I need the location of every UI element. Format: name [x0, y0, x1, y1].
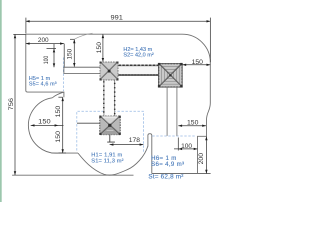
svg-text:100: 100: [181, 143, 193, 150]
svg-text:St= 62,8 m²: St= 62,8 m²: [148, 174, 183, 181]
svg-text:S2= 42,0 m²: S2= 42,0 m²: [123, 52, 153, 58]
svg-text:S5= 4,6 m³: S5= 4,6 m³: [29, 82, 57, 88]
svg-text:150: 150: [96, 42, 103, 54]
svg-text:178: 178: [129, 137, 141, 144]
svg-text:100: 100: [43, 55, 50, 64]
svg-text:756: 756: [8, 97, 15, 110]
svg-text:150: 150: [192, 59, 204, 66]
svg-text:200: 200: [198, 152, 205, 164]
svg-text:150: 150: [55, 130, 62, 142]
svg-text:150: 150: [187, 119, 199, 126]
svg-text:991: 991: [111, 15, 124, 22]
svg-text:150: 150: [55, 105, 62, 117]
svg-text:150: 150: [38, 119, 51, 126]
svg-text:200: 200: [38, 37, 49, 44]
svg-text:S6= 4,9 m³: S6= 4,9 m³: [151, 161, 184, 168]
svg-text:150: 150: [67, 48, 74, 59]
svg-text:S1= 11,3 m²: S1= 11,3 m²: [91, 158, 123, 164]
